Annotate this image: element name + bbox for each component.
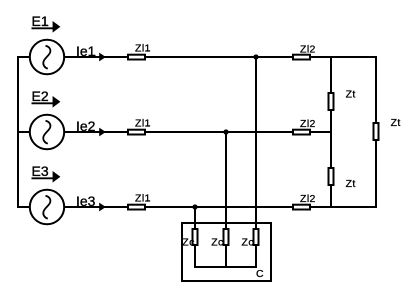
wire Zc2 bottom [225,246,227,267]
wire Zc3 bottom [255,246,257,267]
resistor Zc2 [224,229,229,245]
resistor Zl2 row1 [293,55,310,60]
svg-text:Zt: Zt [346,178,356,190]
svg-text:Zt: Zt [391,117,401,129]
wire Zt column upper [330,56,332,92]
svg-text:Ie1: Ie1 [76,43,96,59]
resistor Zc3 [254,229,259,245]
arrow E1 [53,21,61,33]
label Zl1 row3 serif [146,200,151,201]
wire row1 source to Zl1 [64,56,127,58]
wire row3 Zl1 to Zl2 [146,206,292,208]
svg-text:Zc: Zc [182,237,194,249]
wire row2 source to Zl1 [64,131,127,133]
svg-text:Zl1: Zl1 [135,118,151,130]
arrow Ie3 [99,203,106,212]
label E1 serif [42,25,48,26]
wire left bus [17,57,19,207]
source E1 sine [43,46,50,69]
svg-text:Zl2: Zl2 [300,43,316,55]
wire row1 Zl1 to Zl2 [146,56,292,58]
arrow E2 [53,96,61,108]
wire stub source 3 [17,206,29,208]
svg-text:Ie3: Ie3 [76,193,96,209]
wire row2 Zl1 to Zl2 [146,131,292,133]
wire Zc1 bottom [194,246,196,267]
wire row3 Zl2 to right corner [311,206,376,208]
wire stub source 1 [17,56,29,58]
resistor Zc1 [193,229,198,245]
svg-text:Zt: Zt [346,89,356,101]
resistor Zl1 row2 [128,130,145,135]
resistor Zt1 [329,93,334,110]
wire stub source 2 [17,131,29,133]
wire E2 arrow line [32,102,55,104]
source E1 circle [30,40,64,74]
svg-text:Zc: Zc [242,237,254,249]
wire Zt column middle [330,111,332,167]
svg-text:Zl2: Zl2 [300,118,316,130]
resistor Zl1 row3 [128,205,145,210]
svg-text:C: C [256,268,264,280]
node row2 junction [223,129,228,134]
svg-text:E1: E1 [32,13,49,29]
source E2 circle [30,115,64,149]
node row3 junction [192,204,197,209]
source E3 circle [30,190,64,224]
svg-text:Zl2: Zl2 [300,193,316,205]
svg-text:E3: E3 [32,163,49,179]
resistor Zl2 row2 [293,130,310,135]
wire drop from row1 node [255,57,257,228]
resistor Zt2 [374,123,379,140]
box C enclosure [182,223,271,281]
label Zl1 row1 serif [146,50,151,51]
svg-text:E2: E2 [32,88,49,104]
resistor Zl1 row1 [128,55,145,60]
node row1 junction [253,54,258,59]
wire row2 Zl2 to Zt column [311,131,331,133]
arrow Ie1 [99,53,106,62]
wire Zt column lower [330,186,332,208]
wire E3 arrow line [32,177,55,179]
resistor Zl2 row3 [293,205,310,210]
label Ie1 serif [90,55,96,56]
wire row3 source to Zl1 [64,206,127,208]
svg-text:Ie2: Ie2 [76,118,96,134]
wire row1 Zl2 to right corner [311,56,376,58]
svg-text:Zl1: Zl1 [135,43,151,55]
wire E1 arrow line [32,27,55,29]
svg-text:Zl1: Zl1 [135,193,151,205]
resistor Zt3 [329,168,334,185]
source E3 sine [43,196,50,219]
wire right column lower [375,141,377,208]
wire right column upper [375,56,377,122]
label Zl1 row2 serif [146,125,151,126]
wire drop from row2 node [225,132,227,228]
svg-text:Zc: Zc [211,237,223,249]
wire drop from row3 node [194,207,196,228]
wire bottom bus [194,266,257,268]
source E2 sine [43,121,50,144]
arrow Ie2 [99,128,106,137]
arrow E3 [53,171,61,183]
